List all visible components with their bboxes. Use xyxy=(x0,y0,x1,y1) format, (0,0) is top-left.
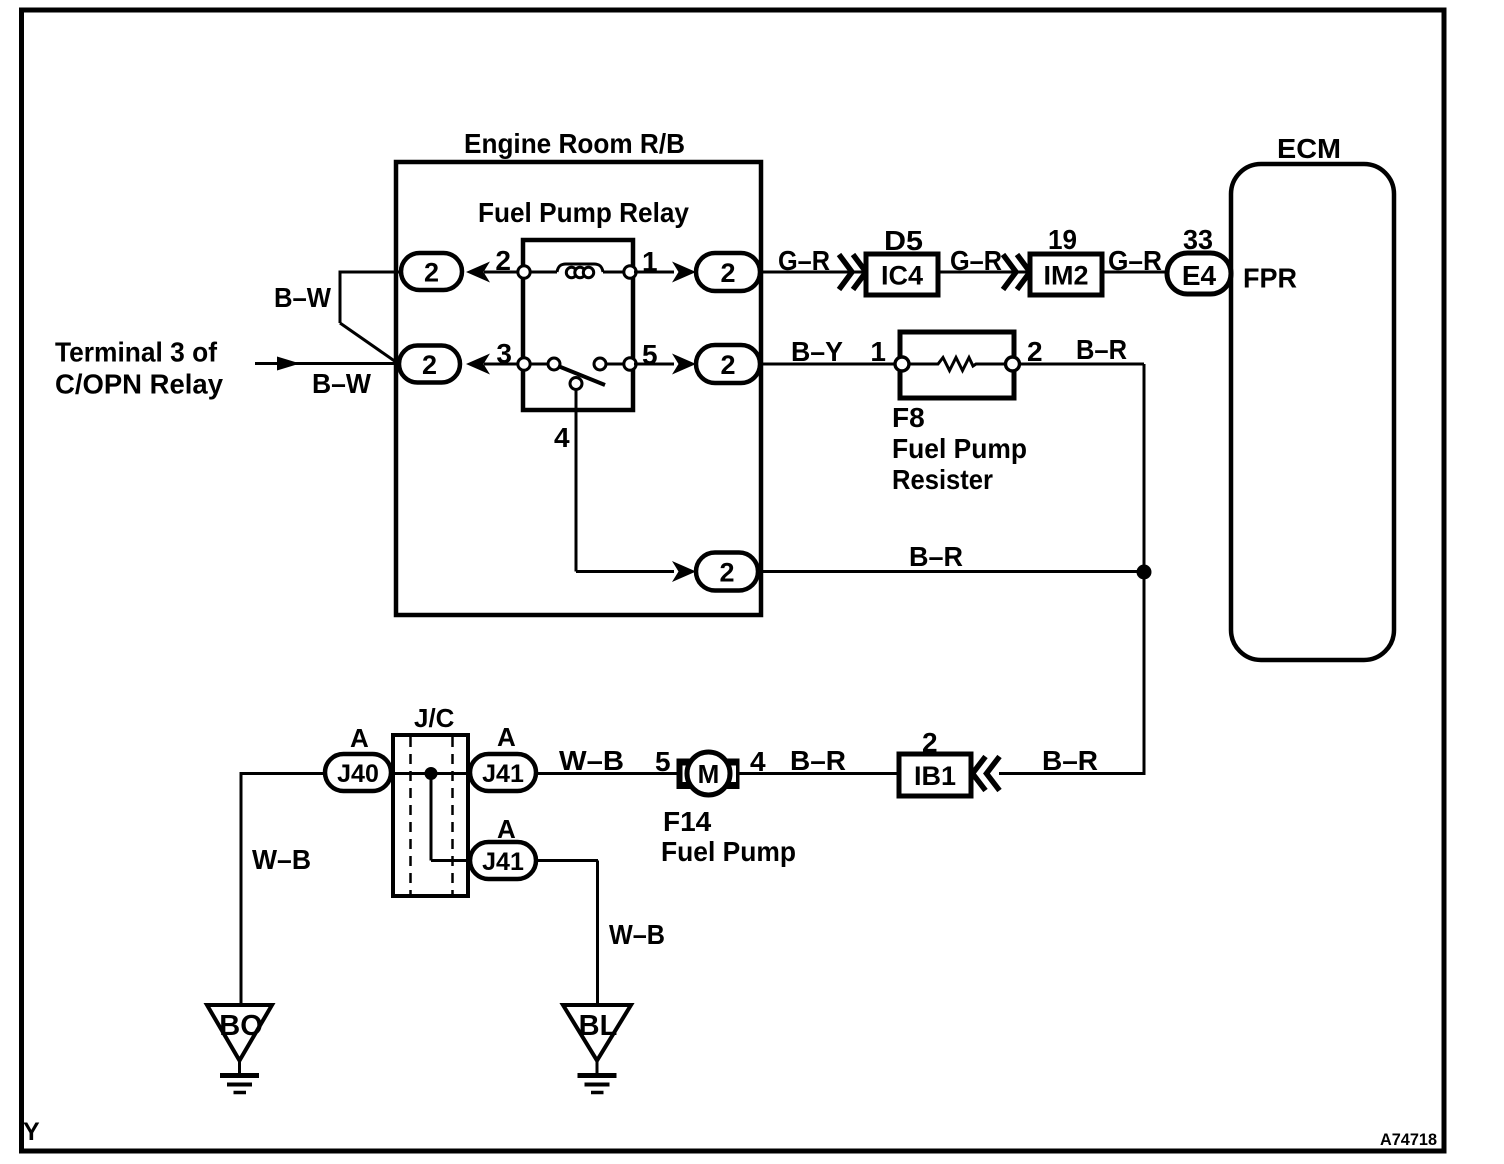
wire B-Y row2 to F8 xyxy=(760,363,896,366)
wire B-W diagonal xyxy=(340,323,396,362)
arrowhead left row2 xyxy=(466,354,490,375)
pass-through chevrons into IM2 xyxy=(1003,255,1016,290)
svg-text:2: 2 xyxy=(424,258,439,288)
motor F14 right bracket tab xyxy=(724,759,740,790)
connector oval J41 lower xyxy=(470,842,536,879)
arrowhead left row1 xyxy=(466,262,490,283)
relay K1 Fuel Pump Relay box xyxy=(523,240,633,410)
svg-text:A: A xyxy=(497,722,516,752)
relay terminal pin 5 xyxy=(624,358,636,370)
svg-text:2: 2 xyxy=(422,350,437,380)
svg-text:W–B: W–B xyxy=(252,844,311,875)
svg-text:A: A xyxy=(497,814,516,844)
connector IC4 box xyxy=(866,254,938,295)
arrowhead right row3 xyxy=(672,561,696,582)
svg-text:1: 1 xyxy=(870,336,886,367)
svg-text:ECM: ECM xyxy=(1277,133,1341,164)
svg-text:5: 5 xyxy=(655,746,671,777)
svg-text:A: A xyxy=(350,723,369,753)
svg-text:IB1: IB1 xyxy=(914,761,956,791)
wire B-R pump to IB1 xyxy=(739,772,900,775)
arrowhead on C/OPN wire xyxy=(277,357,300,371)
svg-text:Fuel Pump: Fuel Pump xyxy=(661,836,796,867)
svg-text:A74718: A74718 xyxy=(1380,1130,1437,1149)
svg-text:B–W: B–W xyxy=(312,368,372,399)
connector oval J41 upper xyxy=(470,754,536,791)
wire J/C internal to J41 lower xyxy=(431,859,471,862)
svg-text:4: 4 xyxy=(554,422,570,453)
svg-text:2: 2 xyxy=(720,258,735,288)
svg-text:J/C: J/C xyxy=(414,703,455,733)
svg-text:J41: J41 xyxy=(482,760,524,788)
wire B-W vertical xyxy=(339,271,342,324)
arrowhead right row1 xyxy=(672,262,696,283)
svg-text:Engine Room R/B: Engine Room R/B xyxy=(464,128,685,159)
svg-text:2: 2 xyxy=(720,350,735,380)
resistor F8 zigzag xyxy=(909,358,1006,371)
ground BO stem xyxy=(238,1061,241,1076)
svg-text:W–B: W–B xyxy=(559,745,624,776)
ground BO bars xyxy=(220,1073,259,1078)
connector oval 2 right row2 xyxy=(696,345,760,383)
relay switch contact circles xyxy=(548,358,560,370)
resistor F8 terminal 2 xyxy=(1006,357,1020,371)
junction block J/C box xyxy=(393,735,468,896)
relay terminal pin 3 xyxy=(518,358,530,370)
svg-text:2: 2 xyxy=(1027,336,1043,367)
resistor F8 box xyxy=(900,332,1014,398)
connector oval E4 xyxy=(1167,253,1231,294)
connector IB1 box xyxy=(899,754,971,796)
svg-text:G–R: G–R xyxy=(1108,245,1162,276)
svg-text:33: 33 xyxy=(1183,224,1213,255)
wire G-R IC4 to IM2 xyxy=(938,271,1028,274)
wire vertical B-R bus xyxy=(1143,364,1146,774)
connector oval J40 xyxy=(325,754,391,791)
wire B-W stub left of box row1 xyxy=(340,271,400,274)
motor F14 circle xyxy=(687,752,730,795)
svg-text:J41: J41 xyxy=(482,848,524,876)
svg-text:B–R: B–R xyxy=(1076,334,1127,365)
relay terminal pin 1 xyxy=(624,266,636,278)
svg-text:BO: BO xyxy=(219,1010,263,1042)
wire W-B J41 to fuel pump xyxy=(536,772,678,775)
relay switch pivot circle pin 4 xyxy=(570,378,582,390)
svg-text:19: 19 xyxy=(1048,224,1077,255)
svg-text:IM2: IM2 xyxy=(1043,261,1088,291)
svg-text:Terminal 3 of: Terminal 3 of xyxy=(55,337,218,368)
wire from Terminal 3 of C/OPN Relay xyxy=(255,362,398,365)
wire J/C internal vertical xyxy=(430,774,433,861)
svg-text:IC4: IC4 xyxy=(881,261,923,291)
svg-text:W–B: W–B xyxy=(609,919,665,950)
svg-text:G–R: G–R xyxy=(778,245,830,276)
svg-text:D5: D5 xyxy=(884,225,923,256)
wire G-R IM2 to E4 xyxy=(1102,271,1168,274)
wire vertical to BL ground xyxy=(596,861,599,1006)
connector oval 2 left row2 xyxy=(399,346,460,383)
svg-text:Fuel Pump Relay: Fuel Pump Relay xyxy=(478,197,689,228)
relay switch blade xyxy=(558,366,605,385)
relay terminal pin 2 xyxy=(518,266,530,278)
connector oval 2 right row1 xyxy=(696,253,760,291)
svg-text:2: 2 xyxy=(719,558,734,588)
pass-through chevrons into IC4 xyxy=(839,255,852,290)
Engine Room R/B box xyxy=(396,162,761,615)
wire B-R row3 from oval to bus xyxy=(758,570,1144,573)
wire G-R row1 to IC4 xyxy=(760,271,864,274)
svg-text:B–R: B–R xyxy=(909,541,963,572)
wire from connector 2 row2 to relay xyxy=(484,363,518,366)
svg-text:G–R: G–R xyxy=(950,245,1002,276)
ECM box xyxy=(1231,164,1394,660)
svg-text:M: M xyxy=(698,759,720,789)
svg-text:B–Y: B–Y xyxy=(791,336,843,367)
ground BL stem xyxy=(596,1061,599,1076)
svg-text:Resister: Resister xyxy=(892,464,993,495)
svg-text:Y: Y xyxy=(23,1118,40,1146)
svg-text:F14: F14 xyxy=(663,806,712,837)
svg-text:B–W: B–W xyxy=(274,282,332,313)
motor F14 left bracket tab xyxy=(677,759,694,790)
wire bus bottom to IB1 chevrons xyxy=(999,772,1146,775)
junction node in J/C xyxy=(425,767,438,780)
wire through J/C xyxy=(390,772,471,775)
junction node B-R xyxy=(1137,565,1152,580)
svg-text:BL: BL xyxy=(579,1010,618,1042)
J/C dashed line left xyxy=(409,737,412,894)
wire from connector 2 row1 to relay xyxy=(484,271,518,274)
arrowhead right row2 xyxy=(672,354,696,375)
svg-text:F8: F8 xyxy=(892,402,925,433)
relay coil L1 xyxy=(557,264,603,272)
svg-text:C/OPN Relay: C/OPN Relay xyxy=(55,369,223,400)
wire relay to connector right row2 xyxy=(634,363,674,366)
connector IM2 box xyxy=(1030,254,1102,295)
wire W-B J41 lower to BL xyxy=(536,859,598,862)
ground BO triangle xyxy=(207,1005,272,1061)
svg-text:E4: E4 xyxy=(1182,260,1217,291)
ground BL triangle xyxy=(563,1005,631,1061)
wire relay switch row xyxy=(530,363,549,366)
connector oval 2 left row1 xyxy=(401,253,462,290)
svg-text:B–R: B–R xyxy=(1042,745,1098,776)
connector oval 2 right row3 xyxy=(696,553,758,591)
wire pin 4 horizontal xyxy=(576,570,674,573)
wire relay coil row xyxy=(530,271,557,274)
svg-text:Fuel Pump: Fuel Pump xyxy=(892,433,1027,464)
wire relay to connector right row1 xyxy=(634,271,674,274)
wire F8 to right corner xyxy=(1019,363,1144,366)
ground BL bars xyxy=(578,1073,617,1078)
svg-text:FPR: FPR xyxy=(1243,263,1297,294)
pass-through chevrons at IB1 xyxy=(973,757,986,791)
wire ground left vertical W-B xyxy=(240,772,243,1005)
wire pin 4 vertical xyxy=(575,390,578,572)
J/C dashed line right xyxy=(451,737,454,894)
resistor F8 terminal 1 xyxy=(895,357,909,371)
svg-text:B–R: B–R xyxy=(790,745,846,776)
svg-text:J40: J40 xyxy=(337,760,379,788)
wire ground J40 branch left xyxy=(241,772,326,775)
